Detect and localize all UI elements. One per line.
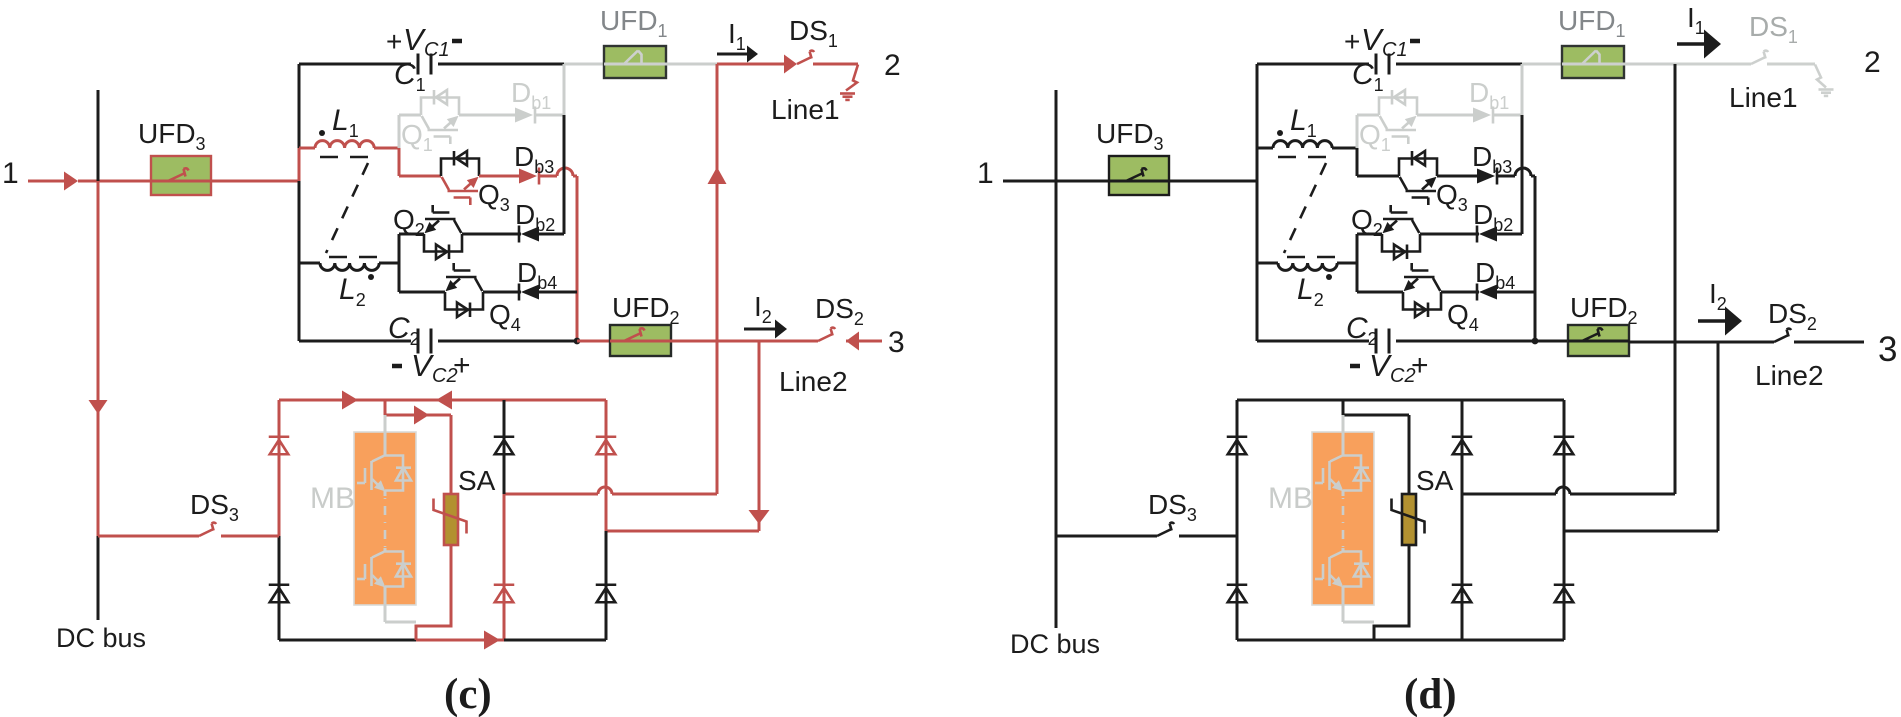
Db2 label (d) <box>1473 199 1513 235</box>
flow arrow down on line2 riser (c) <box>749 510 770 524</box>
diode Db4 (c) <box>519 284 539 301</box>
DC bus label (d) <box>1010 629 1100 659</box>
wire: UFD1 to line-1 junction (d) <box>1624 63 1675 66</box>
wire: left riser Q2-L2-Q4 (d) <box>1356 234 1359 292</box>
wire: Db3 to hop (c) <box>540 175 557 178</box>
UFD3 box (c) <box>151 156 211 195</box>
MB gray return wire (d) <box>1343 586 1374 622</box>
wire: left riser Q2-L2-Q4 (c) <box>398 234 401 292</box>
wire: SA top lead (d) <box>1408 415 1411 494</box>
bridge diode left-bottom (d) <box>1227 585 1248 603</box>
wire: junction to DS1 (d) <box>1675 63 1751 66</box>
Db1 label (c) <box>511 77 551 113</box>
wire: Db2 to right rail (d) <box>1497 233 1522 236</box>
I1 label (d) <box>1687 2 1705 38</box>
svg-text:DC bus: DC bus <box>1010 629 1100 659</box>
MB label (d) <box>1268 482 1313 515</box>
svg-text:MB: MB <box>1268 482 1313 515</box>
svg-text:1: 1 <box>977 157 994 190</box>
L2 polarity dot (d) <box>1326 274 1332 280</box>
wire: Q2 left lead (d) <box>1357 233 1382 236</box>
Db3 label (d) <box>1472 141 1512 177</box>
wire: DC bus to DS3 (d) <box>1056 535 1157 538</box>
capacitor C2 (c) <box>418 329 431 354</box>
bridge diode middle-top (d) <box>1452 437 1473 455</box>
Db4 label (d) <box>1475 257 1515 293</box>
VC2 polarity label (d) <box>1350 348 1429 387</box>
bridge diode middle-bottom (c) <box>494 585 515 603</box>
wire: Q1 to Db1 (d) <box>1417 114 1473 117</box>
bridge diode left-top (d) <box>1227 437 1248 455</box>
wire: DS2 to terminal 3 (d) <box>1794 341 1864 344</box>
C1 value label (c) <box>394 58 426 95</box>
flow arrow on input wire (c) <box>64 172 78 191</box>
transformer coupling dashed diagonal (d) <box>1284 163 1326 253</box>
wire: hop to red riser corner (d) <box>1531 176 1535 341</box>
I2 label (c) <box>754 291 772 327</box>
UFD3 label (c) <box>138 118 206 154</box>
right rail Db1-Db2 (c) <box>563 115 566 234</box>
diode Db3 (d) <box>1477 168 1497 185</box>
node 1 label (d) <box>977 157 994 190</box>
wire: line2 riser to bridge right (c) <box>606 530 759 533</box>
svg-text:(d): (d) <box>1404 671 1457 717</box>
bridge middle rail upper (d) <box>1461 400 1464 494</box>
svg-text:MB: MB <box>310 482 355 515</box>
L1 label (d) <box>1290 104 1317 141</box>
bridge right edge upper (c) <box>605 400 608 531</box>
DC bus label (c) <box>56 623 146 653</box>
svg-text:3: 3 <box>888 326 905 359</box>
wire: Q2 left lead (c) <box>399 233 424 236</box>
transformer core dashes lower (c) <box>329 256 377 259</box>
wire: Q3 left lead (d) <box>1357 175 1399 178</box>
wire: Q4 left lead (c) <box>399 291 445 294</box>
diode Db1 (c) <box>515 107 535 124</box>
L1 polarity dot (c) <box>319 130 325 136</box>
svg-text:DC bus: DC bus <box>56 623 146 653</box>
Q2 label (c) <box>393 204 425 240</box>
cell bottom wire left of C2 (c) <box>299 340 411 343</box>
bridge bottom wire right (c) <box>504 639 606 642</box>
bridge bottom wire right (d) <box>1462 639 1564 642</box>
DS2 label (c) <box>815 293 864 329</box>
flow arrow up on riser (c) <box>708 167 727 184</box>
bridge right edge lower (c) <box>605 531 608 640</box>
line1 ground fault symbol (d) <box>1815 65 1834 96</box>
C2 value label (c) <box>388 312 420 349</box>
wire: DS3 to bridge (d) <box>1179 535 1237 538</box>
cell left edge upper (c) <box>298 64 301 148</box>
Db2 label (c) <box>515 199 555 235</box>
MB module body (c) <box>354 432 416 605</box>
junction dot at cell bottom right (d) <box>1532 338 1539 345</box>
wire: UFD3 to converter cell (c) <box>211 180 299 183</box>
capacitor C2 (d) <box>1376 329 1389 354</box>
DC bus vertical (lower) (c) <box>97 536 100 620</box>
wire: riser to bridge middle (with hop) (c) <box>504 487 717 494</box>
cell bottom wire left of C2 (d) <box>1257 340 1369 343</box>
wire: Q1 left lead (d) <box>1357 114 1379 117</box>
cell bottom wire right of C2 (c) <box>438 340 577 343</box>
I1 label (c) <box>728 18 746 54</box>
wire: Db4 to riser (d) <box>1497 291 1535 294</box>
disconnector DS3 (c) <box>199 523 216 536</box>
UFD2 switch blade (d) <box>1568 328 1629 341</box>
wire: riser to bridge middle (with hop) (d) <box>1462 487 1675 494</box>
svg-text:3: 3 <box>1878 330 1897 369</box>
wire: bridge top to MB/SA node (d) <box>1342 400 1345 415</box>
node 1 label (c) <box>2 157 19 190</box>
bridge diode right-bottom (d) <box>1554 585 1575 603</box>
UFD3 switch blade (c) <box>151 168 211 181</box>
right rail Db1-Db2 (d) <box>1521 115 1524 234</box>
wire: cell top to UFD1 (d) <box>1522 63 1562 66</box>
cell top wire left of C1 (d) <box>1257 63 1369 66</box>
wire: C2 junction to UFD2 (d) <box>1535 340 1568 343</box>
diode Db2 (c) <box>519 226 539 243</box>
bridge left edge upper (d) <box>1236 400 1239 536</box>
UFD2 label (c) <box>612 292 680 328</box>
flow arrow from line2 (c) <box>846 332 859 351</box>
wire: Q4 left lead (d) <box>1357 291 1403 294</box>
svg-text:+: + <box>1344 26 1360 57</box>
capacitor C1 (d) <box>1376 54 1389 75</box>
wire: UFD2 to DS2 (d) <box>1629 341 1774 344</box>
DC bus vertical (upper) (d) <box>1055 90 1058 181</box>
transformer coupling dashed diagonal (c) <box>326 163 368 253</box>
transistor Q2 (d) <box>1382 205 1420 259</box>
transistor Q2 (c) <box>424 205 462 259</box>
MB label (c) <box>310 482 355 515</box>
C2 value label (d) <box>1346 312 1378 349</box>
Db1 label (d) <box>1469 77 1509 113</box>
capacitor C1 (c) <box>418 54 431 75</box>
UFD3 box (d) <box>1109 156 1169 195</box>
DC bus vertical (upper) (c) <box>97 90 100 181</box>
svg-text:+: + <box>386 26 402 57</box>
cell bottom wire right of C2 (d) <box>1396 340 1535 343</box>
UFD1 label (c) <box>600 5 668 41</box>
cell left edge L1-input segment (c) <box>298 148 301 181</box>
cell top wire right of C1 (d) <box>1396 63 1522 66</box>
wire: Q1 to Db1 (c) <box>459 114 515 117</box>
inductor L2 (c) <box>299 263 399 270</box>
bridge diode right-top (d) <box>1554 437 1575 455</box>
diode Db4 (d) <box>1477 284 1497 301</box>
diode Db2 (d) <box>1477 226 1497 243</box>
disconnector DS2 (c) <box>818 328 835 341</box>
bridge top wire (c) <box>279 399 606 402</box>
wire: DS2 to terminal 3 (c) <box>846 340 882 343</box>
flow arrow down on DC bus (c) <box>89 400 108 414</box>
svg-text:UFD3: UFD3 <box>138 118 206 154</box>
node 2 label (c) <box>884 49 901 82</box>
node 3 label (d) <box>1878 330 1897 369</box>
gray drop from top wire to Db1 rail (c) <box>563 64 566 115</box>
DS1 label (c) <box>789 15 838 51</box>
bridge top wire (d) <box>1237 399 1564 402</box>
UFD3 label (d) <box>1096 118 1164 154</box>
transformer core dashes lower (d) <box>1287 256 1335 259</box>
svg-text:UFD2: UFD2 <box>612 292 680 328</box>
bridge left edge lower (d) <box>1236 536 1239 640</box>
wire: UFD1 to line-1 junction (c) <box>666 63 717 66</box>
Q3 label (d) <box>1436 179 1468 215</box>
wire: cell top to UFD1 (c) <box>564 63 604 66</box>
node 3 label (c) <box>888 326 905 359</box>
wire: L1 node up to Q1 emitter (d) <box>1356 115 1359 148</box>
svg-text:2: 2 <box>884 49 901 82</box>
svg-text:(c): (c) <box>444 671 492 717</box>
bridge right edge lower (d) <box>1563 531 1566 640</box>
disconnector DS3 (d) <box>1157 523 1174 536</box>
flow arrow into SA branch (c) <box>414 406 429 425</box>
wire: Db1 to right rail (d) <box>1494 114 1522 117</box>
UFD1 switch blade (d) <box>1562 51 1624 65</box>
wire hop over right rail (d) <box>1515 168 1531 176</box>
wire: DS1 to line1 fault (d) <box>1767 63 1815 66</box>
line1 ground fault symbol (c) <box>840 65 858 100</box>
wire: hop to red riser corner (c) <box>573 176 577 341</box>
disconnector DS1 (d) <box>1751 51 1768 64</box>
bridge bottom wire left (d) <box>1237 639 1374 642</box>
I2 current arrow (d) <box>1698 307 1742 336</box>
svg-text:SA: SA <box>458 465 496 496</box>
Line1 label (d) <box>1729 82 1798 113</box>
DC bus vertical (middle) (c) <box>97 181 100 536</box>
Q1 label (d) <box>1359 119 1391 155</box>
wire: line2 riser down (d) <box>1717 341 1720 531</box>
caption (c) <box>444 671 492 717</box>
IGBT MB-bottom (d) <box>1315 552 1369 588</box>
cell left edge lower (c) <box>298 181 301 341</box>
Q1 label (c) <box>401 119 433 155</box>
wire: line1 junction riser down (c) <box>716 64 719 494</box>
UFD2 box (c) <box>610 325 671 356</box>
wire: SA top lead (c) <box>450 415 453 494</box>
flow arrow right on bridge top (c) <box>342 391 358 410</box>
disconnector DS1 (c) <box>797 51 814 64</box>
wire: Q1 left lead (c) <box>399 114 421 117</box>
svg-text:SA: SA <box>1416 465 1454 496</box>
svg-text:UFD3: UFD3 <box>1096 118 1164 154</box>
bridge bottom wire middle (c) <box>416 639 504 642</box>
MB dash-dot link (d) <box>1342 490 1345 552</box>
UFD2 box (d) <box>1568 325 1629 356</box>
wire: SA bottom return (d) <box>1374 545 1409 640</box>
wire: C2 junction to UFD2 (c) <box>577 340 610 343</box>
flow arrow left on bridge top (c) <box>436 391 452 410</box>
wire: MB/SA node to SA top (c) <box>385 414 451 417</box>
L1 label (c) <box>332 104 359 141</box>
svg-text:UFD1: UFD1 <box>600 5 668 41</box>
transistor Q1 (d) <box>1379 90 1417 144</box>
svg-text:+: + <box>1411 349 1429 382</box>
UFD1 box (d) <box>1562 46 1624 78</box>
bridge left edge lower (c) <box>278 536 281 640</box>
svg-text:1: 1 <box>2 157 19 190</box>
transistor Q3 (d) <box>1399 151 1437 205</box>
transistor Q3 (c) <box>441 151 479 205</box>
UFD3 switch blade (d) <box>1109 168 1169 181</box>
svg-text:2: 2 <box>1864 46 1881 79</box>
disconnector DS2 (d) <box>1774 329 1791 342</box>
wire: L1 node down to Q3 (d) <box>1356 148 1359 176</box>
diode Db1 (d) <box>1473 107 1493 124</box>
wire: L1 node down to Q3 (c) <box>398 148 401 176</box>
wire: terminal 1 lead-in (c) <box>28 180 66 183</box>
bridge middle rail lower (d) <box>1461 494 1464 640</box>
gray drop from top wire to Db1 rail (d) <box>1521 64 1524 115</box>
wire: Db3 to hop (d) <box>1498 175 1515 178</box>
DC bus vertical (middle) (d) <box>1055 181 1058 536</box>
inductor L2 (d) <box>1257 263 1357 270</box>
svg-text:Line2: Line2 <box>1755 360 1824 391</box>
bridge middle rail lower (c) <box>503 494 506 640</box>
bridge diode right-bottom (c) <box>596 585 617 603</box>
bridge bottom wire middle (d) <box>1374 639 1462 642</box>
wire: Db4 to riser (c) <box>539 291 577 294</box>
I2 current arrow (c) <box>744 320 787 339</box>
wire: Q2 to Db2 (c) <box>462 233 521 236</box>
C1 value label (d) <box>1352 58 1384 95</box>
transistor Q4 (c) <box>445 263 483 317</box>
wire: DS1 to line1 fault (c) <box>813 63 858 66</box>
Line2 label (c) <box>779 366 848 397</box>
node 2 label (d) <box>1864 46 1881 79</box>
I1 current arrow (c) <box>717 46 758 63</box>
DS2 label (d) <box>1768 298 1817 334</box>
wire: Q4 to Db4 (d) <box>1441 291 1479 294</box>
bridge diode middle-top (c) <box>494 437 515 455</box>
wire: L1 node up to Q1 emitter (c) <box>398 115 401 148</box>
wire: UFD3 to converter cell (d) <box>1169 180 1257 183</box>
cell top wire left of C1 (c) <box>299 63 411 66</box>
IGBT MB-top (c) <box>357 456 411 492</box>
bridge right edge upper (d) <box>1563 400 1566 531</box>
svg-text:UFD2: UFD2 <box>1570 292 1638 328</box>
svg-text:+: + <box>453 349 471 382</box>
svg-text:Line2: Line2 <box>779 366 848 397</box>
svg-text:Line1: Line1 <box>771 94 840 125</box>
Line1 label (c) <box>771 94 840 125</box>
inductor L1 (d) <box>1257 141 1357 148</box>
cell left edge upper (d) <box>1256 64 1259 148</box>
Q3 label (c) <box>478 179 510 215</box>
surge arrester SA (d) <box>1392 494 1425 545</box>
UFD2 switch blade (c) <box>610 328 671 341</box>
I1 current arrow (d) <box>1677 30 1721 59</box>
MB gray feed wire (c) <box>384 415 387 456</box>
MB gray return wire (c) <box>385 586 416 622</box>
MB module body (d) <box>1312 432 1374 605</box>
cell left edge lower (d) <box>1256 181 1259 341</box>
wire: Q3 left lead (c) <box>399 175 441 178</box>
UFD1 box (c) <box>604 46 666 78</box>
Db4 label (c) <box>517 257 557 293</box>
bridge diode left-top (c) <box>269 437 290 455</box>
bridge diode left-bottom (c) <box>269 585 290 603</box>
SA label (d) <box>1416 465 1454 496</box>
wire: DC bus to DS3 (c) <box>98 535 199 538</box>
DS1 label (d) <box>1749 11 1798 47</box>
bridge bottom wire left (c) <box>279 639 416 642</box>
Line2 label (d) <box>1755 360 1824 391</box>
junction dot at cell bottom right (c) <box>574 338 581 345</box>
flow arrow into DS1 (c) <box>784 55 797 74</box>
L2 polarity dot (c) <box>368 274 374 280</box>
VC1 polarity label (d) <box>1344 22 1420 61</box>
wire: Q2 to Db2 (d) <box>1420 233 1479 236</box>
transistor Q1 (c) <box>421 90 459 144</box>
Q4 label (c) <box>489 299 521 335</box>
bridge diode right-top (c) <box>596 437 617 455</box>
VC1 polarity label (c) <box>386 22 462 61</box>
caption (d) <box>1404 671 1457 717</box>
L2 label (d) <box>1297 273 1324 310</box>
DC bus vertical (lower) (d) <box>1055 536 1058 628</box>
bridge diode middle-bottom (d) <box>1452 585 1473 603</box>
Q4 label (d) <box>1447 299 1479 335</box>
Db3 label (c) <box>514 141 554 177</box>
L2 label (c) <box>339 273 366 310</box>
I2 label (d) <box>1709 278 1727 314</box>
UFD2 label (d) <box>1570 292 1638 328</box>
wire: junction to DS1 (c) <box>717 63 785 66</box>
wire: UFD2 to DS2 (c) <box>671 340 818 343</box>
L1 polarity dot (d) <box>1277 130 1283 136</box>
cell left edge L1-input segment (d) <box>1256 148 1259 181</box>
wire: Db1 to right rail (c) <box>536 114 564 117</box>
wire: DS3 to bridge (c) <box>221 535 279 538</box>
wire: line1 junction riser down (d) <box>1674 64 1677 494</box>
flow arrow on bridge bottom (c) <box>484 631 500 650</box>
bridge left edge upper (c) <box>278 400 281 536</box>
inductor L1 (c) <box>299 141 399 148</box>
surge arrester SA (c) <box>434 494 467 545</box>
transformer core dashes upper (d) <box>1278 156 1326 159</box>
IGBT MB-bottom (c) <box>357 552 411 588</box>
wire: Q3 to Db3 (d) <box>1437 175 1477 178</box>
bridge middle rail upper (c) <box>503 400 506 494</box>
svg-text:C1: C1 <box>1382 39 1408 61</box>
cell top wire right of C1 (c) <box>438 63 564 66</box>
UFD1 label (d) <box>1558 5 1626 41</box>
MB dash-dot link (c) <box>384 490 387 552</box>
svg-text:Line1: Line1 <box>1729 82 1798 113</box>
svg-text:C1: C1 <box>424 39 450 61</box>
DS3 label (d) <box>1148 489 1197 525</box>
DS3 label (c) <box>190 489 239 525</box>
transformer core dashes upper (c) <box>320 156 368 159</box>
wire: terminal 1 to UFD3 (d) <box>1003 180 1109 183</box>
diode Db3 (c) <box>519 168 539 185</box>
wire: line2 riser to bridge right (d) <box>1564 530 1718 533</box>
wire hop over right rail (c) <box>557 168 573 176</box>
SA label (c) <box>458 465 496 496</box>
wire: Db2 to right rail (c) <box>539 233 564 236</box>
svg-text:UFD1: UFD1 <box>1558 5 1626 41</box>
MB gray feed wire (d) <box>1342 415 1345 456</box>
wire: input arrow to UFD3 (c) <box>78 180 151 183</box>
wire: MB/SA node to SA top (d) <box>1343 414 1409 417</box>
UFD1 switch blade (c) <box>604 51 666 65</box>
wire: bridge top to MB/SA node (c) <box>384 400 387 415</box>
transistor Q4 (d) <box>1403 263 1441 317</box>
wire: line2 riser down (c) <box>758 341 761 531</box>
VC2 polarity label (c) <box>392 348 471 387</box>
